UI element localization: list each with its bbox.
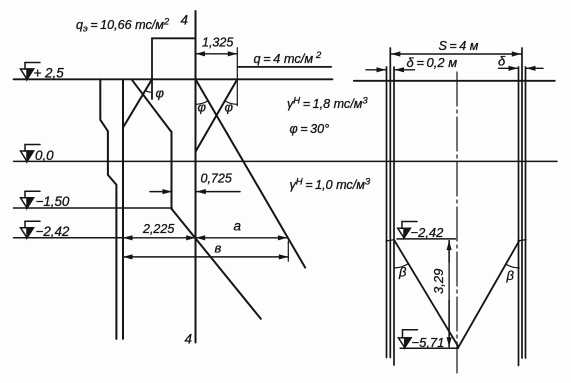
- level mark -1,50: [21, 191, 41, 208]
- short extension under point on L1: [287, 241, 289, 261]
- level mark +2,5: [21, 63, 41, 80]
- svg-text:δ: δ: [498, 54, 506, 69]
- ground line +2,5: [14, 78, 333, 80]
- svg-text:в: в: [215, 241, 222, 256]
- left sheet pile wall lines: [386, 67, 388, 358]
- left X slip line L4 joining pressure edge: [132, 79, 172, 132]
- svg-text:γН = 1,8 тс/м3: γН = 1,8 тс/м3: [287, 96, 368, 112]
- svg-text:q = 4 тс/м: q = 4 тс/м: [254, 51, 314, 66]
- right sheet pile wall lines: [518, 67, 520, 366]
- svg-text:φ = 30°: φ = 30°: [290, 122, 330, 136]
- cap line of cofferdam: [354, 80, 555, 82]
- phi arc at surcharge edge: [225, 101, 238, 104]
- delta dimension right wall: [499, 67, 519, 69]
- svg-text:2,225: 2,225: [142, 222, 174, 236]
- svg-text:δ = 0,2 м: δ = 0,2 м: [407, 55, 458, 70]
- svg-text:3,29: 3,29: [431, 269, 446, 294]
- centre dash-dot line: [456, 72, 458, 373]
- slip line L2 from surcharge edge to wall: [196, 79, 238, 151]
- phi arc left X: [145, 91, 152, 93]
- svg-text:0,0: 0,0: [35, 148, 54, 163]
- svg-text:+ 2,5: + 2,5: [34, 66, 65, 81]
- level line -2,42 right: [397, 238, 456, 240]
- pressure diagram stepped left edge polyline: [100, 79, 116, 339]
- surcharge box q_e top: [152, 37, 196, 39]
- svg-text:1,325: 1,325: [202, 36, 233, 50]
- svg-text:a: a: [234, 219, 242, 234]
- svg-text:4: 4: [185, 332, 193, 347]
- svg-text:β: β: [506, 268, 515, 283]
- dimension 1,325: [196, 53, 238, 55]
- beta arc right: [506, 264, 519, 268]
- dimension line b: [123, 256, 288, 258]
- svg-text:0,725: 0,725: [201, 172, 232, 186]
- level line -5,71: [400, 347, 458, 349]
- left X slip line L3: [123, 79, 152, 127]
- beta line from right wall: [459, 241, 520, 347]
- svg-text:−2,42: −2,42: [411, 225, 445, 240]
- dimension S = 4 m: [391, 53, 522, 55]
- surcharge box q_e left edge with stub below ground: [151, 38, 153, 99]
- svg-text:φ: φ: [198, 100, 207, 115]
- svg-text:4: 4: [181, 13, 189, 28]
- dimension 3,29 vertical: [448, 241, 450, 262]
- level mark -2,42 left: [21, 221, 41, 238]
- phi arc at wall corner: [196, 101, 209, 104]
- extension line at x=237.3: [236, 48, 238, 106]
- svg-text:−1,50: −1,50: [36, 194, 70, 209]
- svg-text:2: 2: [315, 50, 322, 61]
- beta line from left wall: [395, 241, 459, 347]
- svg-text:φ: φ: [225, 100, 234, 115]
- level mark -5,71: [398, 330, 417, 348]
- svg-text:qэ = 10,66 тс/м2: qэ = 10,66 тс/м2: [76, 17, 170, 35]
- level mark -2,42 right: [398, 222, 417, 238]
- level line -2,42 with dimension arrows 2,225 and a: [14, 237, 124, 239]
- joint tick right wall: [518, 240, 526, 241]
- pressure diagram middle vertical: [122, 79, 124, 339]
- wall axis 4-4 vertical line: [195, 11, 197, 343]
- surcharge q line: [238, 66, 331, 68]
- beta arc left: [394, 264, 408, 268]
- pressure diagram lower boundary D_b through wall base: [172, 209, 261, 319]
- svg-text:φ: φ: [156, 86, 165, 101]
- svg-text:S = 4 м: S = 4 м: [439, 39, 479, 53]
- pressure diagram right edge vertical: [171, 132, 173, 209]
- dimension 0,725 arrows: [150, 191, 172, 193]
- svg-text:β: β: [398, 265, 407, 280]
- svg-text:γН = 1,0 тс/м3: γН = 1,0 тс/м3: [290, 177, 371, 193]
- slip line L1 from wall top corner at angle phi: [196, 79, 306, 267]
- svg-text:−2,42: −2,42: [36, 224, 70, 239]
- level line 0,0: [14, 160, 558, 162]
- joint tick left wall: [386, 240, 395, 241]
- delta dimension left wall: [366, 69, 386, 71]
- level mark 0,0: [21, 145, 41, 162]
- level line -1,50: [14, 207, 173, 209]
